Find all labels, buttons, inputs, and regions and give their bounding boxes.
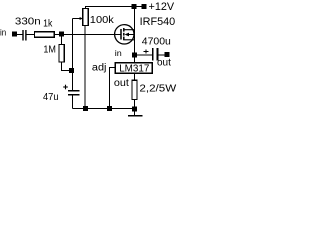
resistor R1 1k — [35, 32, 55, 38]
node rail ground junction — [132, 106, 137, 111]
wire ground rail — [73, 108, 135, 110]
wire — [158, 54, 164, 56]
wire wiper down — [72, 19, 74, 69]
resistor R2 1M — [59, 45, 64, 63]
wire gate line — [64, 34, 121, 36]
wire pot bottom down — [84, 26, 86, 107]
wire adj — [110, 68, 116, 107]
svg-text:adj: adj — [92, 63, 107, 74]
resistor R2 1M lead — [61, 37, 63, 45]
svg-text:47u: 47u — [43, 92, 59, 103]
transistor Q1 IRF540 — [115, 25, 134, 44]
+12V terminal — [142, 4, 147, 9]
svg-text:4700u: 4700u — [142, 37, 171, 48]
drain internal — [124, 29, 134, 31]
wire in pin — [134, 57, 136, 62]
svg-text:2,2/5W: 2,2/5W — [139, 84, 176, 95]
source internal — [124, 39, 134, 41]
gate bar — [120, 29, 122, 40]
wiper arrow — [73, 18, 81, 20]
svg-text:in: in — [115, 48, 122, 58]
wire 1M to node B — [62, 62, 70, 71]
ground — [128, 115, 143, 117]
capacitor C1 330n — [22, 30, 23, 41]
svg-text:IRF540: IRF540 — [140, 16, 176, 28]
wire pot top to +12V rail — [86, 7, 142, 9]
svg-text:out: out — [114, 78, 129, 89]
out terminal — [164, 52, 169, 57]
svg-text:out: out — [157, 57, 171, 68]
wire resistor to ground — [134, 100, 136, 116]
wire — [54, 34, 59, 36]
wire source bus down — [134, 30, 136, 63]
node rail adj junction — [107, 106, 112, 111]
node drain junction — [132, 4, 137, 9]
node rail pot junction — [83, 106, 88, 111]
svg-text:in: in — [0, 28, 6, 38]
svg-text:100k: 100k — [90, 15, 115, 26]
node source junction — [132, 52, 137, 57]
wire — [27, 34, 35, 36]
in terminal — [12, 32, 17, 37]
svg-text:330n: 330n — [15, 17, 41, 28]
wire out line — [137, 54, 152, 56]
node A junction — [59, 32, 64, 37]
channel bar dashes — [123, 28, 125, 32]
wire out pin — [134, 73, 136, 80]
svg-text:1k: 1k — [43, 18, 53, 30]
wire drain — [134, 9, 136, 30]
resistor R3 2,2/5W — [132, 80, 137, 99]
wire — [17, 34, 23, 36]
potentiometer P1 100k — [83, 9, 89, 26]
substrate arrow — [129, 34, 135, 36]
op-amp U1 LM317 box — [115, 63, 152, 74]
svg-text:+12V: +12V — [149, 1, 175, 13]
svg-text:1M: 1M — [43, 44, 56, 55]
node B junction — [69, 68, 74, 73]
